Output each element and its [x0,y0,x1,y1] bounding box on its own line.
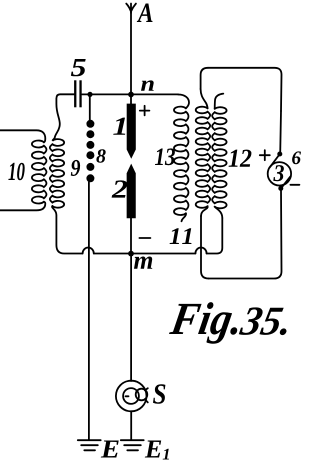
coil 12 right column top hook [215,94,224,109]
coil 12 right column bottom lead [215,207,223,218]
label 3 [273,165,284,181]
label 12 [229,150,252,167]
label m [134,257,152,269]
coil 13 top lead [178,95,189,109]
wire into receiver (top) [279,111,282,154]
label S [153,384,165,404]
antenna symbol [126,4,136,14]
loop left wire down [201,216,209,279]
label 2 [112,180,128,197]
coil 12 left column winding [196,107,210,208]
wire hop over earth-E line [83,247,94,253]
label 6 [292,151,301,164]
loop top-left corner to coil 12 left column [201,68,208,89]
coil 13 winding [174,107,188,215]
caption Fig. [169,302,237,344]
loop top wire [208,68,282,111]
bead 1 of chain 8 [86,120,94,128]
wire: electrode 2 to node m [130,218,132,254]
label E1 [145,441,169,460]
wire: node m to right hop [131,253,195,255]
coil 12 right column winding [212,107,226,208]
wire: bead chain down to earth E [88,182,90,440]
wire: node m down to spark gap S [130,254,132,381]
coil 13 bottom tail hook [182,213,187,221]
spark gap S outer circle [116,381,147,412]
bead 2 of chain 8 [86,130,94,138]
label 13 [155,148,175,165]
label 11 [170,228,192,244]
label A [137,4,153,23]
receiver circle 3 [268,162,291,185]
receiver bottom diagonal [281,176,290,188]
coil 9 bottom lead [52,206,83,254]
receiver bottom junction dot [278,186,283,191]
electrode bar 2 [127,164,136,219]
coil 10 winding [32,141,47,204]
label 10 [8,163,24,181]
wire: capacitor to node n to coil 13 [82,93,178,95]
earth E1 symbol [121,440,144,450]
label n [141,80,154,90]
spark gap S knob ticks [145,388,148,402]
minus sign at receiver [290,184,299,186]
earth E symbol [78,440,101,450]
wire: capacitor left to coil 9 top [55,94,75,138]
coil 12 left column bottom lead [201,206,208,216]
label 1 [113,118,125,135]
loop bottom wire [209,189,282,279]
bead 5 of chain 8 [86,163,94,171]
junction dot at capacitor branch [87,92,92,97]
bead 4 of chain 8 [86,151,94,159]
node n junction dot [128,92,134,98]
plus sign at receiver [260,150,270,160]
bead 6 of chain 8 [86,174,94,182]
spark gap S side knob [136,389,148,401]
wire: node n to electrode 1 [130,95,132,105]
capacitor C5 left plate [74,80,76,107]
label 9 [71,160,80,176]
spark gap contact dash [126,395,129,397]
wire: hop to coil 12 right column bottom [207,218,223,254]
minus sign at electrode 2 [139,237,150,239]
wire hop over battery-loop wire [195,247,206,253]
receiver top junction dot [277,152,282,157]
spark gap S inner circle [123,388,139,404]
label 5 [71,59,86,76]
wire: node to bead chain [89,96,91,121]
label E [101,441,119,458]
bead 3 of chain 8 [86,141,94,149]
capacitor C5 right plate [79,80,81,107]
caption 35. [239,307,287,335]
antenna A lead-in wire [130,9,132,95]
coil 10 bottom lead [0,202,45,211]
wire: spark gap to earth E1 [130,411,132,439]
plus sign at electrode 1 [140,106,150,116]
coil 12 left column top lead [201,89,208,108]
receiver top diagonal [270,154,280,168]
electrode bar 1 [127,104,136,159]
label 8 [96,149,105,163]
coil 9 winding [50,138,64,208]
node m junction dot [128,251,134,257]
wire: hop to node m [94,253,131,255]
coil 10 top lead [0,130,45,142]
